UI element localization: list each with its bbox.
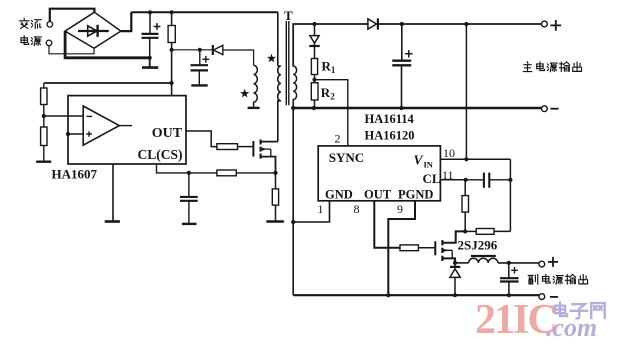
star mark primary <box>267 54 276 63</box>
wire R3 down to HA1607 rail <box>171 50 173 96</box>
node L2 out <box>507 261 511 265</box>
svg-text:2: 2 <box>335 132 341 146</box>
inductor L2 <box>455 256 539 263</box>
svg-text:21IC: 21IC <box>475 297 556 343</box>
diode D5 freewheel <box>450 263 460 295</box>
node C4 top <box>400 22 404 26</box>
node Q2 source feed <box>463 229 467 233</box>
transformer T primary winding <box>278 66 281 142</box>
ground (HA1607) <box>105 220 120 223</box>
node C5 right <box>508 178 512 182</box>
wire HA1607 gnd pin <box>112 164 114 221</box>
label main + <box>550 20 561 31</box>
wire R4 to gate <box>238 146 254 148</box>
wire R5 to source node <box>236 172 275 174</box>
wire AC2 to bridge bottom <box>49 46 94 54</box>
svg-text:SYNC: SYNC <box>329 150 364 165</box>
node Q1 source <box>273 171 277 175</box>
node C4 bottom <box>399 106 403 110</box>
svg-text:1: 1 <box>318 202 324 216</box>
wire D2 to feedback winding <box>223 50 254 65</box>
node divider tap <box>42 114 46 118</box>
wire lower main rail <box>293 107 541 109</box>
node C6 bottom <box>507 293 511 297</box>
node pin9 bottom <box>386 293 390 297</box>
terminal aux - <box>539 294 545 300</box>
wire left vertical gnd bus <box>292 108 294 295</box>
wire pin 1 to gnd bus <box>293 201 329 222</box>
node aux takeoff <box>170 48 174 52</box>
wire bridge output to main rail <box>121 12 131 31</box>
svg-text:R1: R1 <box>322 59 336 76</box>
wire divider supply rail <box>44 82 172 84</box>
wire AC1 to bridge top <box>50 9 95 22</box>
wire pin2 from R1R2 junction <box>315 80 348 146</box>
node switch <box>453 261 457 265</box>
resistor Rb <box>41 116 47 161</box>
bridge rectifier D1 inner diode <box>78 25 109 37</box>
label aux - <box>550 296 558 298</box>
wire pin 11 <box>440 179 465 181</box>
resistor Ra <box>41 83 47 116</box>
svg-text:IN: IN <box>424 159 434 169</box>
node pin10 VIN <box>464 157 468 161</box>
wire main DC rail <box>131 11 277 13</box>
diode D4 <box>309 24 319 59</box>
IC HA1607 box <box>68 96 186 164</box>
wire R7 to Q2 gate <box>418 247 435 249</box>
svg-text:V: V <box>414 152 424 167</box>
node pin11 <box>464 178 468 182</box>
node C1 bottom <box>148 56 152 60</box>
node R1 R2 junction <box>312 78 316 82</box>
svg-text:PGND: PGND <box>398 187 433 201</box>
wire + rail to output <box>378 23 542 25</box>
node divider rail <box>170 81 174 85</box>
transformer T core <box>286 21 289 105</box>
transistor Q2 2SJ296 <box>435 240 455 263</box>
wire aux supply <box>172 49 213 51</box>
resistor R9 <box>465 229 510 235</box>
svg-text:GND: GND <box>325 187 353 201</box>
capacitor C4 main filter <box>392 24 412 108</box>
bridge rectifier D1 diamond <box>65 12 121 48</box>
inductor L1 feedback winding <box>254 65 258 107</box>
ground (divider) <box>36 160 51 162</box>
wire to Q2 source <box>442 231 465 242</box>
svg-text:CL: CL <box>423 171 441 186</box>
svg-text:.com: .com <box>546 313 597 342</box>
node pin1 gnd bus <box>291 220 295 224</box>
node CS <box>187 171 191 175</box>
wire inverting input <box>44 115 83 117</box>
svg-text:HA16114: HA16114 <box>365 112 415 126</box>
svg-text:T: T <box>284 8 293 23</box>
node R3 top <box>170 10 174 14</box>
label 副电源输出 <box>528 274 587 284</box>
svg-text:R2: R2 <box>321 85 335 102</box>
label main - <box>550 108 558 110</box>
node VIN feed top <box>464 22 468 26</box>
node C1 top <box>148 10 152 14</box>
label: AC input 交流电源 <box>19 18 41 45</box>
resistor R1 <box>311 59 317 75</box>
wire rail to transformer primary <box>277 12 279 66</box>
capacitor C5 <box>466 173 511 188</box>
wire VIN feed vertical <box>465 24 467 159</box>
ground (L1) <box>248 107 260 109</box>
resistor R3 <box>168 12 175 50</box>
label 主电源输出 <box>523 62 581 72</box>
ground (R6) <box>266 220 284 223</box>
wire pin 8 drive <box>374 201 400 248</box>
wire negative rail (thick) <box>65 31 150 58</box>
resistor R5 CS filter <box>217 170 236 176</box>
svg-text:HA16120: HA16120 <box>365 129 415 143</box>
wire bottom rail <box>293 294 539 296</box>
node secondary bottom <box>291 106 295 110</box>
svg-text:2SJ296: 2SJ296 <box>458 238 498 253</box>
ground (C2) <box>191 84 207 86</box>
wire OUT to gate resistor <box>186 131 217 147</box>
wire R1 to R2 <box>314 75 316 83</box>
terminal main + <box>542 21 548 27</box>
resistor R6 sense <box>272 173 278 221</box>
node C2 top <box>198 48 202 52</box>
node on box edge <box>66 132 70 136</box>
node D5 bottom <box>453 293 457 297</box>
wire pin 10 <box>440 158 510 160</box>
svg-text:8: 8 <box>354 202 360 216</box>
wire non-inverting input <box>68 133 83 135</box>
svg-text:HA1607: HA1607 <box>52 166 98 181</box>
wire pin10 down right side <box>509 159 511 231</box>
terminal aux + <box>539 261 545 267</box>
IC U2 HA16114 box <box>318 146 440 201</box>
terminal main - <box>542 106 548 112</box>
svg-text:CL(CS): CL(CS) <box>138 147 183 162</box>
diode D3 main rectifier <box>368 18 378 29</box>
transistor Q1 main switch <box>253 140 277 173</box>
terminal AC line 1 <box>47 22 53 28</box>
wire CL(CS) pin <box>157 164 217 173</box>
op-amp U1 <box>83 106 132 145</box>
wire pin 9 PGND <box>388 201 415 295</box>
svg-text:OUT: OUT <box>364 187 392 201</box>
ground (C3) <box>182 223 197 225</box>
capacitor C2 <box>191 50 210 85</box>
resistor R8 <box>462 180 469 232</box>
resistor R2 <box>311 83 318 108</box>
diode D2 aux rectifier <box>213 45 223 55</box>
resistor R4 gate drive <box>217 144 238 150</box>
svg-text:10: 10 <box>443 146 455 160</box>
svg-text:9: 9 <box>397 202 403 216</box>
svg-text:OUT: OUT <box>152 126 183 141</box>
watermark 电子网 <box>555 303 605 319</box>
node R2 bottom <box>312 106 316 110</box>
label aux + <box>548 257 558 267</box>
capacitor C6 <box>500 263 518 295</box>
capacitor C3 <box>180 173 198 224</box>
terminal AC line 2 <box>46 40 52 46</box>
transformer T secondary winding <box>293 24 296 108</box>
capacitor C1 <box>142 12 161 58</box>
node R1 chain top <box>312 22 316 26</box>
wire secondary top to + rail <box>293 24 368 66</box>
resistor R7 gate drive <box>400 245 418 251</box>
star mark L1 <box>240 89 249 98</box>
ground (C1) <box>142 58 158 68</box>
